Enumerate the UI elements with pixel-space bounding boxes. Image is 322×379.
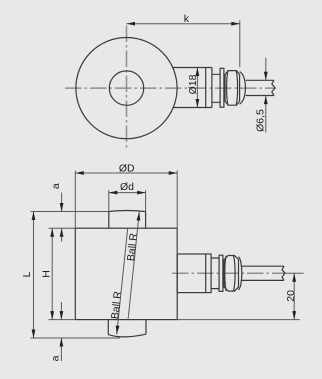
svg-text:a: a — [50, 183, 62, 189]
svg-text:L: L — [21, 271, 33, 277]
svg-text:Ød: Ød — [120, 181, 134, 193]
svg-text:H: H — [40, 270, 52, 278]
svg-text:Ø6,5: Ø6,5 — [255, 109, 267, 132]
svg-text:a: a — [50, 355, 62, 361]
svg-text:ØD: ØD — [119, 162, 135, 174]
svg-text:k: k — [184, 13, 190, 25]
svg-text:20: 20 — [285, 290, 297, 302]
svg-text:Ø18: Ø18 — [187, 74, 199, 94]
